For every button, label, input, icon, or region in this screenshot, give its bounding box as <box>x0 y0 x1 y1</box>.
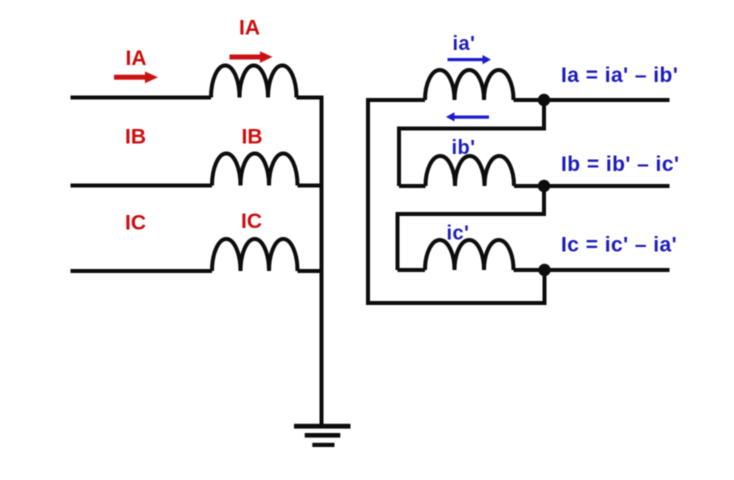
winding ia' (secondary coil a) <box>425 70 514 100</box>
wire coil c to output Ic <box>514 268 670 272</box>
ground <box>294 424 351 447</box>
wire delta link a-b (down, left, down) <box>399 100 544 186</box>
winding ic' (secondary coil c) <box>425 240 514 270</box>
node a (junction dot) <box>538 94 550 106</box>
wire coil B to neutral bus <box>298 184 322 188</box>
current arrow return (blue, leftward, under coil a) <box>446 112 489 121</box>
svg-text:IC: IC <box>125 212 146 235</box>
svg-text:Ia = ia' – ib': Ia = ia' – ib' <box>561 64 678 87</box>
current arrow ia' (blue, rightward) <box>448 55 492 64</box>
wire phase C (left) <box>71 269 213 273</box>
wire coil a to output Ia <box>514 98 670 102</box>
svg-text:IB: IB <box>242 126 263 149</box>
wire phase A (left) <box>71 96 212 100</box>
wire delta link to coil c <box>398 268 426 272</box>
wire coil b to output Ib <box>514 184 670 188</box>
node c (junction dot) <box>538 264 550 276</box>
current arrow IA' (red, rightward, above coil A) <box>230 51 273 63</box>
wire delta left riser to coil a <box>368 98 425 102</box>
svg-text:IA: IA <box>126 47 147 70</box>
winding ib' (secondary coil b) <box>426 156 515 186</box>
wire phase B (left) <box>71 184 213 188</box>
current arrow IA (red, rightward, on wire A) <box>114 72 158 84</box>
wire coil C to neutral bus <box>298 269 322 273</box>
svg-text:Ib = ib' – ic': Ib = ib' – ic' <box>561 153 679 176</box>
svg-text:ia': ia' <box>453 33 476 55</box>
winding IC (primary phase C coil) <box>212 239 298 271</box>
wire delta link c-a (down, left, up far-left riser) <box>368 98 545 303</box>
winding IA (primary phase A coil) <box>211 66 297 98</box>
svg-text:IA: IA <box>239 16 260 39</box>
winding IB (primary phase B coil) <box>212 154 298 186</box>
wire coil A to neutral bus <box>297 96 322 100</box>
svg-text:IC: IC <box>241 210 262 233</box>
svg-text:Ic = ic' – ia': Ic = ic' – ia' <box>561 233 677 256</box>
neutral bus wire (vertical, to ground) <box>320 96 324 426</box>
wire delta link b-c (down, left, down) <box>398 186 545 270</box>
wire delta link to coil b <box>399 184 426 188</box>
svg-text:IB: IB <box>125 126 146 149</box>
node b (junction dot) <box>538 180 550 192</box>
